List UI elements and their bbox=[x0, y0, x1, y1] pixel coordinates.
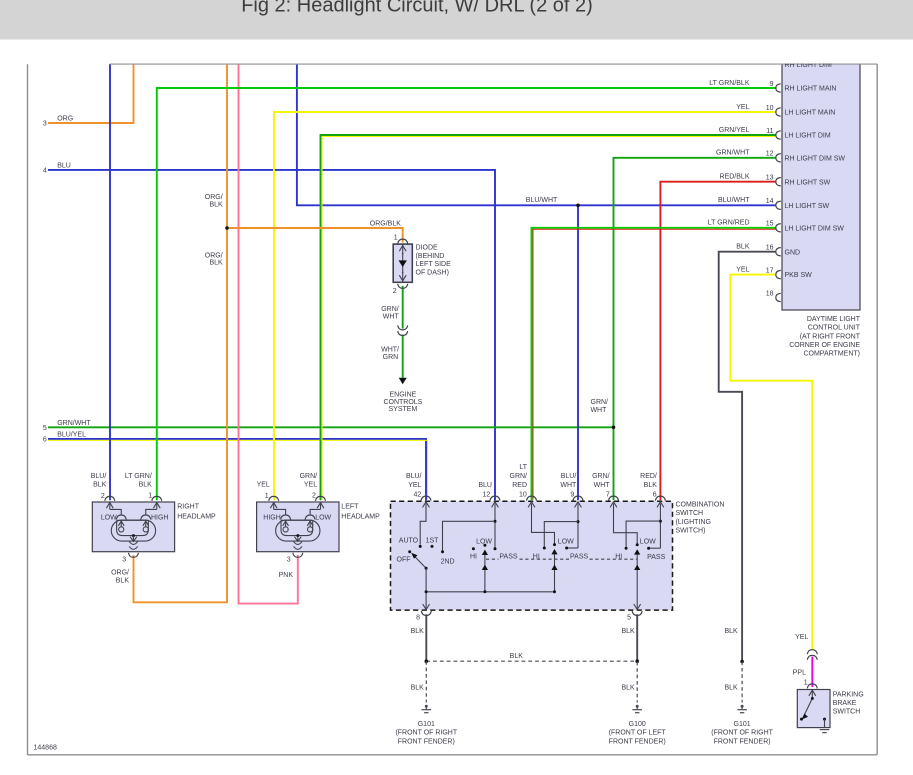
svg-text:YEL: YEL bbox=[795, 634, 808, 641]
svg-text:YEL: YEL bbox=[304, 482, 317, 489]
wire S1 pin7 to LOW contact (sect 3) bbox=[614, 504, 638, 544]
switch S1 top pin 7 bbox=[606, 492, 619, 508]
switch S1 wire label GRN/WHT bbox=[592, 473, 610, 489]
label GRN/WHT (diode leg) bbox=[381, 306, 399, 320]
svg-text:G100: G100 bbox=[629, 721, 646, 728]
wire BLU/WHT branch to S1 pin9 bbox=[577, 205, 579, 500]
wire BLK S1 pin5 to ground G100 bbox=[636, 614, 638, 662]
svg-text:GRN/WHT: GRN/WHT bbox=[57, 420, 91, 427]
node ground junction pin5 bbox=[635, 659, 639, 663]
switch S1 wire label BLU/YEL bbox=[406, 473, 422, 489]
svg-text:LEFT SIDE: LEFT SIDE bbox=[416, 261, 452, 268]
svg-text:RED/BLK: RED/BLK bbox=[720, 174, 750, 181]
svg-text:BRAKE: BRAKE bbox=[833, 700, 857, 707]
node GRN/WHT junction with pin5 wire bbox=[612, 426, 616, 430]
svg-text:RH LIGHT SW: RH LIGHT SW bbox=[785, 179, 831, 186]
svg-text:HEADLAMP: HEADLAMP bbox=[341, 513, 380, 520]
svg-text:9: 9 bbox=[570, 492, 574, 499]
U1 caption: daytime light control unit location bbox=[789, 316, 861, 357]
svg-text:GRN/: GRN/ bbox=[300, 473, 318, 480]
svg-text:WHT: WHT bbox=[560, 482, 577, 489]
svg-text:BLK: BLK bbox=[116, 578, 130, 585]
svg-text:144868: 144868 bbox=[34, 745, 57, 752]
wire S1 common bus bbox=[426, 591, 554, 593]
svg-text:HI: HI bbox=[470, 554, 477, 561]
lamp E1 wire label BLU/BLK bbox=[91, 473, 107, 489]
wire YEL U1 pin17 to parking brake switch bbox=[730, 275, 812, 651]
node S1 bus junction at rotary bbox=[425, 590, 428, 593]
node pin 4 BLU label bbox=[43, 162, 71, 174]
right headlamp E1 box bbox=[92, 502, 174, 552]
U1 pin 11 bbox=[719, 127, 831, 140]
svg-text:OF DASH): OF DASH) bbox=[416, 269, 449, 276]
label PNK at lamp E2 pin3 bbox=[279, 572, 294, 579]
svg-text:WHT/: WHT/ bbox=[381, 347, 399, 354]
lamp E2 pin1 connector bbox=[265, 493, 279, 501]
svg-text:(FRONT OF RIGHT: (FRONT OF RIGHT bbox=[711, 730, 773, 737]
labels sect1 bbox=[470, 539, 518, 561]
wire BLK ground bus (dashed) bbox=[426, 660, 637, 662]
wire GRN/WHT diode D1 pin2 to inline connector bbox=[402, 286, 404, 329]
wire S1 pin9 vertical bbox=[577, 504, 579, 549]
svg-text:FRONT FENDER): FRONT FENDER) bbox=[398, 738, 455, 745]
svg-text:LOW: LOW bbox=[558, 539, 574, 546]
svg-text:BLK: BLK bbox=[644, 482, 658, 489]
lamp E2 HIGH/LOW labels bbox=[263, 515, 331, 522]
svg-text:ORG/: ORG/ bbox=[111, 570, 129, 577]
svg-text:AUTO: AUTO bbox=[399, 538, 419, 545]
U1 pin 16 bbox=[736, 244, 800, 257]
svg-text:3: 3 bbox=[122, 556, 126, 563]
svg-text:RH LIGHT MAIN: RH LIGHT MAIN bbox=[785, 86, 837, 93]
svg-text:BLK: BLK bbox=[411, 628, 425, 635]
svg-text:5: 5 bbox=[627, 614, 631, 621]
wire BLU/YEL pin6 bbox=[48, 439, 426, 500]
diode D1 box bbox=[393, 244, 412, 282]
node ORG/BLK junction bbox=[225, 226, 229, 230]
svg-text:DIODE: DIODE bbox=[416, 245, 439, 252]
svg-text:YEL: YEL bbox=[736, 266, 749, 273]
svg-text:1: 1 bbox=[148, 493, 152, 500]
U1 pin 9 bbox=[709, 80, 836, 93]
U1 pin 12 bbox=[716, 150, 845, 163]
svg-text:RED/: RED/ bbox=[640, 473, 657, 480]
inline connector C100 on GRN/WHT wire bbox=[398, 325, 408, 335]
label LEFT HEADLAMP bbox=[341, 503, 380, 520]
svg-text:G101: G101 bbox=[734, 721, 751, 728]
svg-text:LH LIGHT MAIN: LH LIGHT MAIN bbox=[785, 110, 836, 117]
svg-text:BLK: BLK bbox=[209, 260, 223, 267]
svg-text:14: 14 bbox=[766, 198, 774, 205]
dimmer lever sect1 bbox=[482, 550, 488, 594]
svg-text:GND: GND bbox=[785, 249, 801, 256]
node ground junction pin8 bbox=[425, 659, 429, 663]
svg-text:LH LIGHT SW: LH LIGHT SW bbox=[785, 203, 830, 210]
svg-text:9: 9 bbox=[770, 81, 774, 88]
parking brake switch S2 box bbox=[797, 690, 830, 728]
svg-text:LH LIGHT DIM: LH LIGHT DIM bbox=[785, 133, 831, 140]
left headlamp E2 box bbox=[257, 502, 339, 552]
lamp E1 pin2 connector bbox=[101, 493, 115, 501]
svg-text:PKB SW: PKB SW bbox=[785, 272, 813, 279]
switch S1 wire label LT GRN/RED bbox=[510, 464, 528, 489]
switch S2 internals bbox=[800, 690, 826, 727]
svg-text:BLK: BLK bbox=[621, 628, 635, 635]
svg-text:PNK: PNK bbox=[279, 572, 294, 579]
wire BLK dashed drop to G100 bbox=[636, 662, 638, 703]
wire ORG pin3 bbox=[48, 64, 134, 123]
diode D1 pin 1 bbox=[394, 235, 408, 244]
ground G101 (left) bbox=[422, 705, 432, 713]
svg-text:COMPARTMENT): COMPARTMENT) bbox=[803, 351, 860, 358]
svg-text:YEL: YEL bbox=[257, 482, 270, 489]
svg-text:GRN/YEL: GRN/YEL bbox=[719, 127, 750, 134]
contacts sect1 HI/LOW/PASS bbox=[472, 544, 497, 550]
title bar bbox=[0, 0, 913, 40]
svg-text:SWITCH: SWITCH bbox=[833, 709, 861, 716]
switch S1 top pin 42 bbox=[414, 492, 431, 508]
svg-text:ORG/: ORG/ bbox=[205, 194, 223, 201]
contacts sect2 HI/LOW/PASS bbox=[543, 543, 568, 549]
wire S1 pin6 branch to HI contact (sect 3) bbox=[626, 521, 660, 547]
switch S1 bottom pin 8 bbox=[416, 604, 431, 621]
wire ORG/BLK to diode D1 pin1 bbox=[227, 228, 403, 243]
svg-text:LOW: LOW bbox=[315, 515, 331, 522]
svg-text:1: 1 bbox=[394, 235, 398, 242]
switch S1 rotary labels bbox=[397, 538, 455, 566]
svg-text:LH LIGHT DIM SW: LH LIGHT DIM SW bbox=[785, 225, 845, 232]
label ENGINE CONTROLS SYSTEM bbox=[383, 391, 422, 413]
wire BLK S1 pin8 to ground G101 bbox=[425, 614, 427, 660]
labels sect3 bbox=[615, 539, 665, 561]
svg-text:WHT: WHT bbox=[594, 482, 611, 489]
label PARKING BRAKE SWITCH bbox=[833, 692, 864, 716]
svg-text:BLU: BLU bbox=[57, 162, 71, 169]
switch S2 pin 1 bbox=[804, 679, 818, 688]
switch S1 wire label BLU/WHT bbox=[560, 473, 577, 489]
svg-text:10: 10 bbox=[519, 492, 527, 499]
wire S1 pin6 to PASS contact (sect 3) bbox=[650, 547, 660, 549]
lamp E2 wire label GRN/YEL bbox=[300, 473, 318, 489]
labels sect2 bbox=[533, 539, 589, 561]
svg-text:GRN/WHT: GRN/WHT bbox=[716, 150, 750, 157]
svg-text:COMBINATION: COMBINATION bbox=[676, 502, 725, 509]
svg-text:ORG/: ORG/ bbox=[205, 252, 223, 259]
svg-text:SWITCH): SWITCH) bbox=[676, 527, 706, 534]
svg-text:1: 1 bbox=[804, 679, 808, 686]
svg-text:PPL: PPL bbox=[793, 670, 806, 677]
wire WHT/GRN inline connector to engine controls system bbox=[402, 335, 404, 378]
svg-text:FRONT FENDER): FRONT FENDER) bbox=[714, 738, 771, 745]
svg-text:(BEHIND: (BEHIND bbox=[416, 253, 445, 260]
svg-text:BLU/: BLU/ bbox=[406, 473, 422, 480]
svg-text:GRN/: GRN/ bbox=[510, 473, 528, 480]
label DIODE location bbox=[416, 245, 452, 277]
switch S1 bottom pin 5 bbox=[627, 604, 642, 621]
lamp E2: LEFT HEADLAMP internals bbox=[270, 503, 324, 558]
switch S1 wire label RED/BLK bbox=[640, 473, 657, 489]
svg-text:LOW: LOW bbox=[476, 539, 492, 546]
wire ORG/BLK column bbox=[134, 64, 228, 602]
svg-text:8: 8 bbox=[416, 614, 420, 621]
svg-text:SYSTEM: SYSTEM bbox=[389, 406, 418, 413]
wire BLU pin4 bbox=[48, 170, 495, 500]
lamp E1 pin3 label bbox=[122, 556, 126, 563]
lamp E2 pin2 connector bbox=[312, 493, 326, 501]
svg-text:BLK: BLK bbox=[411, 684, 425, 691]
svg-text:RIGHT: RIGHT bbox=[177, 503, 200, 510]
svg-text:GRN/: GRN/ bbox=[591, 399, 609, 406]
svg-text:17: 17 bbox=[766, 267, 774, 274]
svg-text:BLK: BLK bbox=[139, 482, 153, 489]
switch S1 wire label BLU bbox=[478, 482, 492, 489]
svg-text:G101: G101 bbox=[418, 721, 435, 728]
svg-text:Fig 2: Headlight Circuit, W/ D: Fig 2: Headlight Circuit, W/ DRL (2 of 2… bbox=[241, 0, 593, 16]
wire LT GRN/RED U1 pin15 to S1 pin10 bbox=[532, 228, 777, 500]
wire BLK U1 pin16 to ground G101 bbox=[719, 252, 776, 662]
U1 pin 10 bbox=[736, 104, 835, 117]
svg-text:(AT RIGHT FRONT: (AT RIGHT FRONT bbox=[800, 333, 861, 340]
lamp E1 pin1 connector bbox=[148, 493, 162, 501]
svg-text:HIGH: HIGH bbox=[151, 515, 169, 522]
lamp E2 pin3 label bbox=[287, 556, 291, 563]
wire BLK dashed drop to G101 left bbox=[425, 661, 427, 702]
svg-text:CORNER OF ENGINE: CORNER OF ENGINE bbox=[789, 342, 860, 349]
svg-text:ORG/BLK: ORG/BLK bbox=[370, 221, 401, 228]
label RIGHT HEADLAMP bbox=[177, 503, 216, 520]
U1 pin 14 bbox=[718, 197, 829, 210]
contacts sect3 HI/LOW/PASS bbox=[625, 543, 651, 549]
mechanical linkage (dashed) bbox=[486, 558, 499, 560]
combination switch S1 box (dashed) bbox=[391, 501, 673, 610]
svg-text:LT: LT bbox=[519, 464, 527, 471]
label WHT/GRN bbox=[381, 347, 399, 361]
svg-text:RED: RED bbox=[512, 482, 527, 489]
svg-text:7: 7 bbox=[606, 492, 610, 499]
svg-text:3: 3 bbox=[43, 121, 47, 128]
svg-text:PASS: PASS bbox=[647, 554, 665, 561]
svg-text:PASS: PASS bbox=[570, 554, 588, 561]
svg-text:BLK: BLK bbox=[724, 628, 738, 635]
svg-text:BLU/WHT: BLU/WHT bbox=[718, 197, 750, 204]
svg-text:BLK: BLK bbox=[621, 684, 635, 691]
wire BLU/YEL yellow tracer bbox=[48, 440, 428, 499]
svg-text:CONTROL UNIT: CONTROL UNIT bbox=[808, 325, 861, 332]
svg-text:BLK: BLK bbox=[93, 482, 107, 489]
wire GRN/YEL U1 pin11 to left headlamp pin2 bbox=[321, 135, 777, 500]
ground G101 (right) bbox=[737, 705, 747, 713]
svg-text:13: 13 bbox=[766, 175, 774, 182]
svg-text:5: 5 bbox=[43, 425, 47, 432]
svg-text:CONTROLS: CONTROLS bbox=[383, 399, 422, 406]
svg-text:(FRONT OF LEFT: (FRONT OF LEFT bbox=[609, 730, 667, 737]
svg-text:18: 18 bbox=[766, 290, 774, 297]
node pin 5 GRN/WHT label bbox=[43, 420, 91, 432]
wire BLU/BLK to right headlamp pin2 bbox=[109, 64, 111, 500]
wire S1 pin9 branch to HI contact (sect 2) bbox=[544, 522, 578, 547]
svg-text:HIGH: HIGH bbox=[263, 515, 281, 522]
wire PPL to parking brake switch pin1 bbox=[811, 657, 813, 687]
svg-text:FRONT FENDER): FRONT FENDER) bbox=[609, 738, 666, 745]
svg-text:BLK: BLK bbox=[724, 684, 738, 691]
svg-text:1ST: 1ST bbox=[426, 538, 440, 545]
svg-text:WHT: WHT bbox=[383, 314, 400, 321]
arrow to engine controls system bbox=[399, 378, 407, 384]
node pin 6 BLU/YEL label bbox=[43, 431, 86, 443]
svg-text:LEFT: LEFT bbox=[341, 503, 359, 510]
wire GRN/WHT pin5 bbox=[48, 426, 614, 428]
wire BLK dashed drop to G101 right bbox=[741, 662, 743, 703]
node BLU/WHT junction bbox=[576, 204, 580, 208]
wire S1 pin12 branch to 2ND contact bbox=[443, 521, 496, 550]
node ground junction U1 GND bbox=[740, 660, 744, 664]
label COMBINATION SWITCH bbox=[676, 502, 725, 535]
svg-text:15: 15 bbox=[766, 221, 774, 228]
U1 pin 13 bbox=[720, 174, 831, 187]
wire LT GRN/RED red tracer bbox=[533, 229, 776, 499]
svg-text:10: 10 bbox=[766, 105, 774, 112]
svg-text:BLK: BLK bbox=[209, 201, 223, 208]
svg-text:BLU/WHT: BLU/WHT bbox=[526, 197, 558, 204]
lamp E1 wire label LT GRN/BLK bbox=[125, 473, 152, 489]
svg-text:12: 12 bbox=[766, 151, 774, 158]
switch S1 top pin 9 bbox=[570, 492, 583, 508]
wire GRN/WHT U1 pin12 to S1 pin7 bbox=[614, 158, 777, 500]
svg-text:BLU/YEL: BLU/YEL bbox=[57, 431, 86, 438]
svg-text:OFF: OFF bbox=[397, 557, 411, 564]
svg-text:GRN: GRN bbox=[383, 354, 399, 361]
svg-text:12: 12 bbox=[483, 492, 491, 499]
svg-text:11: 11 bbox=[766, 128, 773, 135]
svg-text:3: 3 bbox=[287, 556, 291, 563]
svg-text:YEL: YEL bbox=[736, 104, 749, 111]
switch S1 top pin 6 bbox=[653, 492, 666, 508]
svg-text:YEL: YEL bbox=[408, 482, 421, 489]
wire S1 pin10 to LOW contact (sect 2) bbox=[532, 504, 555, 544]
svg-text:WHT: WHT bbox=[590, 407, 607, 414]
svg-text:6: 6 bbox=[653, 492, 657, 499]
daytime light control unit U1 box bbox=[782, 58, 860, 310]
lamp E2 wire label YEL bbox=[257, 482, 270, 489]
svg-text:LT GRN/RED: LT GRN/RED bbox=[708, 220, 750, 227]
svg-text:LOW: LOW bbox=[101, 515, 117, 522]
wire S1 pin12 to PASS contact (sect 1) bbox=[494, 504, 496, 548]
lamp E1: RIGHT HEADLAMP internals bbox=[106, 503, 160, 558]
dimmer lever sect3 to pin5 bbox=[634, 549, 640, 609]
svg-text:BLK: BLK bbox=[510, 653, 524, 660]
switch S1 rotary lever (points at OFF) bbox=[411, 553, 427, 570]
node S1 pin9 branch junction bbox=[577, 520, 580, 523]
svg-text:LT GRN/: LT GRN/ bbox=[125, 473, 152, 480]
node S1 pin12 branch junction bbox=[494, 520, 497, 523]
svg-text:2: 2 bbox=[393, 288, 397, 295]
svg-text:2: 2 bbox=[101, 493, 105, 500]
wire RED/BLK U1 pin13 to S1 pin6 bbox=[660, 182, 776, 501]
svg-text:LOW: LOW bbox=[640, 539, 656, 546]
node pin 3 ORG label bbox=[43, 116, 73, 128]
switch S1 rotary contacts OFF/AUTO/1ST/2ND bbox=[408, 545, 444, 553]
svg-text:6: 6 bbox=[43, 437, 47, 444]
U1 pin 17 bbox=[736, 266, 812, 279]
U1 pin 15 bbox=[708, 220, 845, 233]
U1 pin 18 bbox=[766, 290, 781, 301]
svg-text:16: 16 bbox=[766, 245, 774, 252]
svg-text:BLU/: BLU/ bbox=[91, 473, 107, 480]
label ORG/BLK at lamp E1 pin3 bbox=[111, 570, 129, 585]
svg-text:HEADLAMP: HEADLAMP bbox=[177, 513, 216, 520]
ground inside parking brake switch bbox=[820, 730, 830, 733]
wire S1 pin9 to PASS contact (sect 2) bbox=[568, 547, 578, 549]
svg-text:ENGINE: ENGINE bbox=[389, 391, 416, 398]
node S1 pin6 branch junction bbox=[659, 520, 662, 523]
diode D1 pin 2 bbox=[393, 284, 408, 295]
wire S1 lever to pin8 bbox=[425, 568, 427, 609]
svg-text:RH LIGHT DIM SW: RH LIGHT DIM SW bbox=[785, 155, 846, 162]
switch S1 top pin 12 bbox=[483, 492, 500, 508]
svg-text:PASS: PASS bbox=[499, 554, 517, 561]
wire PNK column to left headlamp pin3 bbox=[239, 64, 298, 604]
svg-text:1: 1 bbox=[265, 493, 269, 500]
svg-text:LT GRN/BLK: LT GRN/BLK bbox=[709, 80, 750, 87]
wire BLU/WHT from page top to U1 pin14 bbox=[297, 64, 776, 205]
svg-text:BLK: BLK bbox=[736, 244, 750, 251]
switch S1 rotary: pin42 to AUTO contact bbox=[420, 504, 426, 545]
diode D1 symbol bbox=[399, 244, 407, 282]
wire S1 pin6 vertical bbox=[659, 504, 661, 549]
label ORG/BLK (lower column) bbox=[205, 252, 223, 266]
inline connector on YEL/PPL wire bbox=[807, 650, 817, 660]
svg-text:(LIGHTING: (LIGHTING bbox=[676, 519, 711, 526]
svg-text:ORG: ORG bbox=[57, 116, 73, 123]
switch S1 top pin 10 bbox=[519, 492, 536, 508]
svg-text:DAYTIME LIGHT: DAYTIME LIGHT bbox=[807, 316, 861, 323]
wire YEL U1 pin10 to left headlamp pin1 bbox=[274, 112, 776, 500]
svg-text:42: 42 bbox=[414, 492, 422, 499]
label GRN/WHT (above junction) bbox=[590, 399, 608, 414]
lamp E1 LOW/HIGH labels bbox=[101, 515, 169, 522]
svg-text:2ND: 2ND bbox=[441, 558, 455, 565]
ground G100 bbox=[632, 705, 642, 713]
dimmer lever sect2 bbox=[551, 549, 557, 593]
svg-text:BLU: BLU bbox=[478, 482, 492, 489]
wire GRN/YEL yellow tracer bbox=[322, 137, 776, 500]
svg-text:GRN/: GRN/ bbox=[592, 473, 610, 480]
svg-text:GRN/: GRN/ bbox=[381, 306, 399, 313]
svg-text:4: 4 bbox=[43, 167, 47, 174]
svg-text:PARKING: PARKING bbox=[833, 692, 864, 699]
wire LT GRN/BLK U1 pin9 to right headlamp pin1 bbox=[157, 88, 776, 500]
label ORG/BLK (upper column) bbox=[205, 194, 223, 208]
svg-text:2: 2 bbox=[312, 493, 316, 500]
svg-text:(FRONT OF RIGHT: (FRONT OF RIGHT bbox=[395, 730, 457, 737]
svg-text:SWITCH: SWITCH bbox=[676, 510, 704, 517]
svg-text:BLU/: BLU/ bbox=[561, 473, 577, 480]
